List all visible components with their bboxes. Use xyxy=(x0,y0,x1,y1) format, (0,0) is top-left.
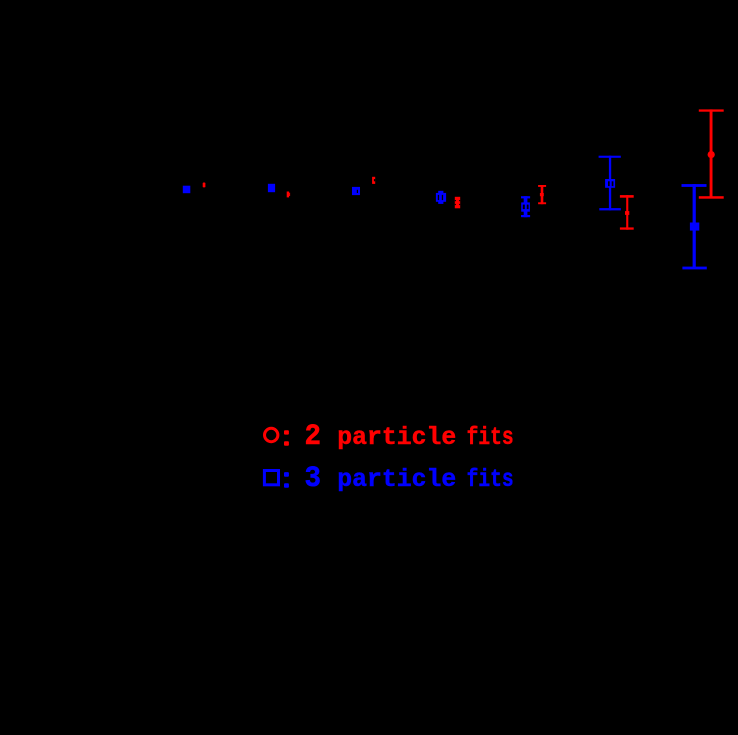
group 4: red errorbar xyxy=(455,197,460,209)
svg-text:fits: fits xyxy=(467,465,514,494)
group 6: blue errorbar + open square xyxy=(599,156,621,211)
legend: blue square marker xyxy=(264,471,278,485)
group 5: red errorbar + point xyxy=(538,185,546,204)
svg-text:fits: fits xyxy=(467,423,514,452)
group 3: blue square xyxy=(352,187,360,195)
group 1: blue square xyxy=(183,186,191,194)
group 2: blue square xyxy=(268,184,275,192)
legend: blue text xyxy=(284,462,514,495)
group 1: red point xyxy=(203,183,206,188)
group 3: red point xyxy=(372,177,375,184)
group 7: blue errorbar + filled square xyxy=(682,184,707,269)
svg-text:particle: particle xyxy=(337,465,456,494)
group 6: red errorbar + point xyxy=(620,195,634,230)
group 5: blue errorbar + open square xyxy=(521,196,530,217)
group 4: blue square + bar xyxy=(436,191,446,204)
svg-text:2: 2 xyxy=(305,420,322,453)
legend: red circle marker xyxy=(265,428,278,441)
svg-text:particle: particle xyxy=(337,423,456,452)
group 2: red point xyxy=(287,192,289,198)
group 7: red errorbar + filled circle xyxy=(699,109,724,198)
legend: red text xyxy=(284,420,514,453)
svg-text:3: 3 xyxy=(305,462,322,495)
